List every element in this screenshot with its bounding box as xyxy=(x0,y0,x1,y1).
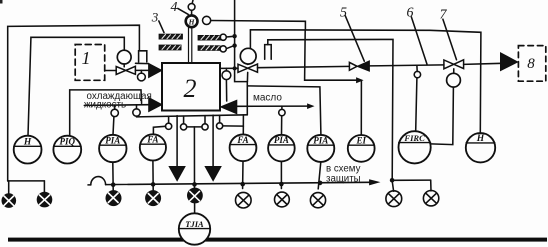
drain down-arrow 2 xyxy=(212,115,214,167)
wire box1 to valve V1 xyxy=(105,70,117,72)
lamp HL5 (filled) xyxy=(187,188,203,204)
instrument FA1 xyxy=(140,134,166,160)
bearing block 3c (hatched) xyxy=(198,36,221,41)
lamp HL1 (filled) xyxy=(2,193,17,208)
lube header vertical xyxy=(235,0,248,82)
wire frame route A: lamps bus-left up left side xyxy=(8,25,140,181)
wire tap1 to FA1 xyxy=(153,126,165,134)
tap circle above tachometer xyxy=(191,10,193,15)
wire line1 top to route C xyxy=(211,21,306,30)
svg-text:PIA: PIA xyxy=(105,135,120,145)
wire lamp5 to TJIA xyxy=(194,203,196,213)
lamp HL2 (filled) xyxy=(37,192,53,208)
inlet arrow T2 into unit 2 xyxy=(149,98,162,112)
svg-text:H: H xyxy=(188,17,196,26)
lamp HL4 (filled) xyxy=(145,190,161,206)
main line continues xyxy=(369,65,444,66)
inlet arrow T1 into unit 2 xyxy=(149,64,162,78)
tap circle B on cooling pipe xyxy=(136,105,138,109)
lamp HL9 (open) xyxy=(386,191,402,207)
instrument PIQ xyxy=(53,136,81,164)
wire FIRC riser xyxy=(416,78,417,131)
svg-text:TJIA: TJIA xyxy=(185,219,204,229)
node lube header x main line xyxy=(233,66,237,70)
wire tap4 to FA2 riser xyxy=(223,125,244,127)
wire PIQ riser and cooling label line xyxy=(70,90,142,136)
tap circle on bearing 3d xyxy=(220,46,226,52)
svg-text:6: 6 xyxy=(407,6,414,21)
svg-text:FA: FA xyxy=(146,134,158,144)
pointer 4 xyxy=(178,8,189,14)
bearing block 3d (hatched) xyxy=(198,46,220,51)
wire V2 stem down xyxy=(246,72,248,81)
motor bracket xyxy=(265,45,272,60)
lamp HL8 (open) xyxy=(310,193,325,208)
oil inlet arrow T3 into unit 2 xyxy=(221,100,237,114)
pointer 6 xyxy=(411,17,427,65)
wire pump riser xyxy=(249,30,251,48)
control valve 7 xyxy=(444,60,464,69)
oil line xyxy=(237,105,309,107)
main discharge line xyxy=(258,66,350,67)
pointer 5 xyxy=(345,16,364,61)
instrument FIRC xyxy=(399,131,431,163)
lamp HL10 (open) xyxy=(423,191,438,206)
svg-text:FA: FA xyxy=(236,135,248,145)
valve V2 xyxy=(238,64,258,72)
svg-text:3: 3 xyxy=(151,10,159,25)
svg-text:5: 5 xyxy=(340,6,347,21)
main line tail xyxy=(464,63,503,64)
drain down-arrow 1 xyxy=(176,116,178,167)
tap circle on main line to FIRC xyxy=(416,65,418,71)
tap circle on oil line for PIA2 xyxy=(281,106,283,109)
svg-text:H: H xyxy=(23,138,32,148)
wire V1 to inlet triangle xyxy=(135,69,148,71)
left lamps feed line xyxy=(8,180,45,182)
unit 8 (dashed box) xyxy=(518,46,545,82)
svg-text:EI: EI xyxy=(355,135,366,145)
instrument EI xyxy=(348,135,375,162)
svg-text:H: H xyxy=(476,134,485,144)
wire bearing taps to lube header xyxy=(226,35,234,38)
wire PIA3 feed xyxy=(247,86,321,135)
svg-text:PIA: PIA xyxy=(313,135,328,145)
bearing block 3b (hatched) xyxy=(159,45,181,50)
pump motor M2 xyxy=(240,48,256,64)
instrument PIA2 xyxy=(268,135,295,162)
cooling water pipe xyxy=(84,104,148,107)
right lamps feed line xyxy=(390,178,395,183)
bus nodes xyxy=(111,182,116,187)
instrument TJIA xyxy=(179,213,210,244)
lamp HL3 (filled) xyxy=(106,190,122,206)
wire FA2 to lamp xyxy=(242,161,244,188)
scan corner mark xyxy=(0,0,3,4)
orifice fitting on inlet drop xyxy=(139,51,147,62)
svg-text:7: 7 xyxy=(440,8,448,23)
svg-text:2: 2 xyxy=(184,74,197,103)
bearing block 3a (hatched) xyxy=(159,34,182,39)
wire PIA2 riser xyxy=(281,116,283,135)
actuator circle xyxy=(447,73,461,87)
check valve 5 xyxy=(349,62,357,70)
svg-text:масло: масло xyxy=(253,93,282,104)
pointer 3 xyxy=(159,21,164,33)
pointer 7 xyxy=(443,19,457,60)
svg-text:жидкость: жидкость xyxy=(84,99,126,110)
arrowhead protection bus xyxy=(370,180,379,185)
unit 2 (turbine box) xyxy=(162,63,220,111)
wire line3 (motor current to lamps) xyxy=(268,39,393,180)
taps under drain line xyxy=(168,116,170,123)
wire unit2 outlet to V2 xyxy=(220,67,238,69)
wire tap2-tap3 join to TJIA riser xyxy=(187,126,202,128)
instrument H (right) xyxy=(466,133,495,162)
protection bus xyxy=(88,184,91,186)
wire FA1 to lamp xyxy=(152,161,154,191)
wire PIA1 riser xyxy=(112,117,115,135)
svg-text:8: 8 xyxy=(527,56,535,72)
tap circle on bearing 3c xyxy=(220,34,226,40)
motor M1 on valve V1 xyxy=(117,50,131,64)
svg-text:1: 1 xyxy=(82,48,91,68)
wire route A2 (y=30 header to H-right) xyxy=(250,30,481,133)
wire route C down to EI branch xyxy=(305,30,358,81)
instrument PIA1 xyxy=(99,135,126,162)
wire PIA2 to lamp xyxy=(280,161,282,188)
wire PIA3 to lamp xyxy=(318,162,321,189)
shaft (double line) xyxy=(188,28,190,64)
outlet arrow to unit 8 xyxy=(501,53,518,71)
wire valve7 to actuator xyxy=(453,69,455,74)
tap circle on inlet line xyxy=(140,70,142,73)
wire V2 stem continues to drain xyxy=(246,82,248,115)
svg-text:защиты: защиты xyxy=(326,173,361,184)
svg-text:FIRC: FIRC xyxy=(403,133,425,143)
instrument H (left) xyxy=(14,136,42,164)
unit 1 (dashed box) xyxy=(75,45,105,81)
lamp HL6 (open) xyxy=(236,192,252,208)
bottom border xyxy=(8,238,547,242)
wire PIA1 to lamp xyxy=(112,162,114,190)
wire orifice to inlet xyxy=(136,62,149,64)
arrowhead oil line xyxy=(308,104,314,109)
wire actuator to FIRC xyxy=(431,87,454,145)
svg-text:PIA: PIA xyxy=(274,135,289,145)
svg-text:PIQ: PIQ xyxy=(60,137,76,147)
tap circle on outlet xyxy=(225,68,227,70)
tap circle at tachometer xyxy=(203,16,211,24)
valve V1 xyxy=(116,66,135,74)
svg-text:4: 4 xyxy=(171,0,178,15)
arrowhead on EI branch xyxy=(357,78,363,83)
drain line below unit 2 xyxy=(137,115,248,117)
instrument FA2 xyxy=(230,134,257,161)
node lube taps xyxy=(232,34,236,38)
lamp HL7 (open) xyxy=(275,192,290,207)
tachometer H xyxy=(186,15,198,27)
wire EI riser xyxy=(360,81,362,135)
wire route B: level instrument H riser xyxy=(28,37,124,136)
tap circle A on cooling pipe xyxy=(114,105,116,109)
instrument PIA3 xyxy=(307,135,334,162)
